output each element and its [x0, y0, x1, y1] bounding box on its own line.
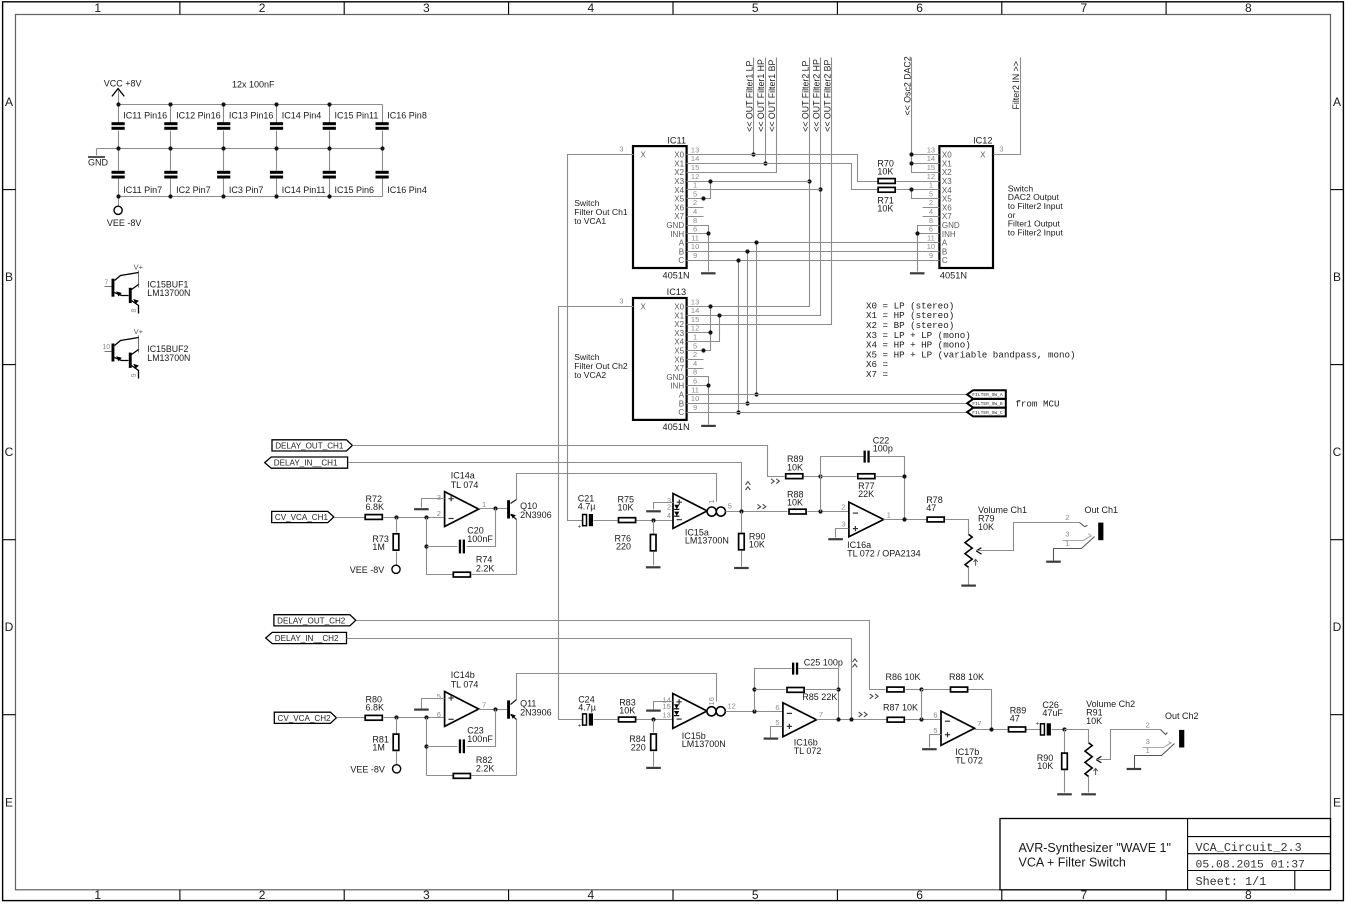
wire IC11 GND INH to ground: [704, 226, 709, 272]
svg-text:13: 13: [691, 145, 699, 154]
svg-text:IC16 Pin4: IC16 Pin4: [387, 185, 427, 195]
svg-text:10K: 10K: [877, 204, 893, 214]
svg-text:4: 4: [693, 359, 697, 368]
wire C26 to R91: [1065, 730, 1089, 743]
junction IC15b output: [752, 709, 756, 713]
svg-text:R87 10K: R87 10K: [883, 702, 918, 712]
svg-text:10K: 10K: [877, 167, 893, 177]
svg-text:12: 12: [728, 701, 736, 710]
svg-text:INH: INH: [670, 382, 684, 391]
OTA IC15b LM13700N: [662, 694, 735, 749]
svg-text:1: 1: [482, 500, 486, 509]
wire DELAY_IN_CH1 to IC15a output: [349, 463, 742, 510]
svg-text:9: 9: [929, 251, 933, 260]
svg-text:4051N: 4051N: [663, 422, 690, 432]
capacitor C25 100p: [755, 657, 843, 719]
op-amp IC17b TL072: [933, 711, 982, 766]
label 12x 100nF: [232, 80, 275, 90]
svg-text:6: 6: [775, 703, 779, 712]
svg-text:TL 074: TL 074: [451, 480, 479, 490]
capacitor C20 100nF: [427, 509, 496, 554]
junction bottom rail col4: [274, 194, 278, 198]
capacitor decoupling IC11 Pin7: [112, 149, 163, 197]
resistor R81 1M: [372, 718, 398, 765]
junction top rail col1: [116, 102, 120, 106]
svg-text:X0: X0: [942, 151, 952, 160]
wire IC17b output to R89: [975, 729, 1008, 731]
transistor Q11 2N3906: [507, 698, 552, 719]
svg-text:GND: GND: [942, 221, 960, 230]
junction C26 R90: [1062, 727, 1066, 731]
svg-text:VEE -8V: VEE -8V: [350, 565, 385, 575]
svg-text:+: +: [578, 723, 582, 730]
marker send arrows R88 row: [757, 504, 765, 509]
svg-text:10K: 10K: [1086, 716, 1102, 726]
svg-text:3: 3: [619, 296, 623, 305]
junction IC14b output / C23: [493, 707, 497, 711]
svg-text:IC14 Pin11: IC14 Pin11: [282, 185, 326, 195]
wire OUT Filter1 HP to IC11 X1: [765, 58, 767, 164]
marker send arrows R86 row: [870, 694, 878, 699]
svg-text:1: 1: [94, 1, 101, 15]
capacitor decoupling IC13 Pin16: [217, 105, 273, 149]
svg-text:X7: X7: [942, 212, 952, 221]
svg-text:VEE -8V: VEE -8V: [350, 765, 385, 775]
svg-text:6.8K: 6.8K: [366, 502, 385, 512]
svg-text:100p: 100p: [873, 444, 893, 454]
svg-text:10K: 10K: [619, 706, 635, 716]
wire IC11 X3 to X5 strap: [704, 182, 711, 199]
junction R77 C22 output: [902, 474, 906, 478]
wire OUT Filter2 BP to IC13 X2: [704, 58, 832, 325]
wire IC15b output to IC16b: [726, 711, 783, 713]
ground IC15b non-inverting input: [646, 702, 672, 711]
net tag CV_VCA_CH2: [274, 712, 336, 723]
capacitor decoupling IC15 Pin11: [323, 105, 379, 149]
resistor R88 10K: [787, 489, 849, 514]
svg-text:VEE -8V: VEE -8V: [107, 218, 142, 228]
svg-text:5: 5: [933, 726, 937, 735]
svg-text:4051N: 4051N: [940, 270, 967, 280]
svg-text:<< OUT Filter2 LP: << OUT Filter2 LP: [800, 60, 810, 131]
svg-text:to Filter2 Input: to Filter2 Input: [1008, 201, 1064, 211]
svg-text:C: C: [5, 445, 14, 459]
wire Osc2 DAC2 to IC12 X0 X1 X2: [912, 58, 923, 173]
wire R86 R87 node vertical: [921, 690, 923, 720]
svg-text:IC14 Pin4: IC14 Pin4: [282, 110, 322, 120]
svg-text:X3: X3: [674, 177, 684, 186]
svg-text:IC13: IC13: [667, 287, 686, 297]
junction R89 R77 C22: [818, 474, 822, 478]
capacitor C21 4.7u polarized: [578, 493, 618, 530]
junction IC15a output: [739, 509, 743, 513]
svg-text:E: E: [5, 795, 13, 809]
resistor R89 47 output: [1009, 706, 1041, 732]
op-amp IC14b TL074: [437, 670, 486, 726]
junction IC16b output feedback: [836, 717, 840, 721]
svg-text:15: 15: [927, 163, 935, 172]
wire IC11 X0 to R70: [704, 155, 878, 182]
svg-text:6.8K: 6.8K: [366, 703, 385, 713]
marker send arrows R89 row: [771, 479, 779, 484]
net tag DELAY_IN__CH1: [265, 457, 348, 468]
wire net C down to IC13: [738, 261, 740, 413]
svg-text:220: 220: [631, 743, 646, 753]
svg-text:8: 8: [1245, 1, 1252, 15]
svg-text:16: 16: [707, 697, 716, 705]
marker send arrows DELAY_IN_CH1 vertical: [746, 482, 751, 490]
junction mid rail col2: [168, 146, 172, 150]
svg-text:IC11 Pin16: IC11 Pin16: [123, 110, 167, 120]
svg-text:X7 =: X7 =: [866, 369, 888, 380]
marker send arrows R87 row: [859, 712, 867, 717]
junction R86 R88 feedback: [919, 687, 923, 691]
transistor Q10 2N3906: [507, 500, 552, 521]
svg-text:7: 7: [977, 719, 981, 728]
resistor R88 10K feedback: [922, 672, 992, 729]
wire OUT Filter1 BP to IC11 X2: [704, 58, 777, 173]
wire OUT Filter1 LP to IC11 X0: [753, 58, 755, 155]
wire net B IC13 to FILTER_SW_B: [704, 403, 968, 405]
svg-text:2: 2: [437, 509, 441, 518]
svg-text:X3: X3: [942, 177, 952, 186]
wire IC16a output to R78: [884, 519, 927, 521]
svg-text:DELAY_OUT_CH1: DELAY_OUT_CH1: [275, 442, 344, 451]
svg-text:2N3906: 2N3906: [520, 708, 552, 718]
svg-text:3: 3: [999, 144, 1003, 153]
junction bottom rail col1: [116, 194, 120, 198]
junction OUT Filter2 HP / IC11 X4: [818, 187, 822, 191]
net tag FILTER_SW_A: [967, 390, 1006, 399]
svg-text:10K: 10K: [618, 503, 634, 513]
resistor R78 47: [926, 495, 968, 534]
capacitor decoupling IC16 Pin4: [376, 149, 427, 197]
svg-text:4051N: 4051N: [663, 270, 690, 280]
connector jack Out Ch2: [1127, 711, 1199, 769]
resistor R70 10K: [877, 158, 922, 183]
svg-text:IC12: IC12: [973, 135, 992, 145]
resistor R76 220: [614, 521, 660, 568]
net tag FILTER_SW_C: [967, 408, 1006, 417]
wire IC11 X1 to R71: [704, 164, 878, 190]
svg-text:CV_VCA_CH1: CV_VCA_CH1: [275, 513, 329, 522]
junction R83 R84: [651, 717, 655, 721]
svg-text:DELAY_IN__CH1: DELAY_IN__CH1: [274, 459, 338, 468]
junction OUT Filter1 HP / IC11 X1: [763, 161, 767, 165]
svg-text:7: 7: [1081, 1, 1088, 15]
svg-text:8: 8: [693, 368, 697, 377]
net flag OUT Filter1 LP: [745, 60, 755, 131]
wire GND middle rail: [97, 148, 383, 150]
wire Q11 collector to IC15b bias: [517, 674, 717, 702]
svg-text:X6: X6: [674, 355, 684, 364]
ground IC15a non-inverting input: [646, 503, 673, 512]
wire IC12 X4 to X5 strap: [912, 190, 923, 199]
svg-text:12: 12: [691, 324, 699, 333]
svg-text:DELAY_OUT_CH2: DELAY_OUT_CH2: [277, 616, 346, 625]
junction Osc2 DAC2 / IC12 X0: [909, 152, 913, 156]
capacitor C24 4.7u polarized: [578, 694, 618, 729]
svg-text:10: 10: [927, 242, 935, 251]
svg-text:Out Ch1: Out Ch1: [1085, 505, 1119, 515]
analog switch IC12 4051N: [923, 135, 1011, 280]
svg-text:2: 2: [693, 350, 697, 359]
transistor buffer IC15BUF2 LM13700N: [102, 327, 190, 378]
op-amp IC16a TL072/OPA2134: [841, 502, 920, 558]
net flag OUT Filter1 BP: [767, 59, 777, 131]
resistor R83 10K: [619, 698, 673, 722]
svg-text:E: E: [1333, 795, 1341, 809]
junction IC11 INH: [706, 231, 710, 235]
capacitor decoupling IC12 Pin16: [164, 105, 220, 149]
op-amp IC14a TL074: [437, 470, 486, 526]
svg-text:12: 12: [927, 172, 935, 181]
svg-text:2: 2: [259, 1, 266, 15]
svg-text:13: 13: [927, 145, 935, 154]
svg-text:X1: X1: [674, 311, 684, 320]
junction feedback C20: [424, 544, 428, 548]
svg-text:X3: X3: [674, 329, 684, 338]
svg-text:IC16 Pin8: IC16 Pin8: [387, 110, 427, 120]
svg-text:5: 5: [752, 888, 759, 902]
wire net C IC11 to IC12: [704, 260, 923, 262]
junction IC13 INH: [706, 383, 710, 387]
wire IC12 GND INH to ground: [918, 226, 923, 272]
svg-text:+: +: [1036, 721, 1040, 728]
svg-text:LM13700N: LM13700N: [147, 353, 190, 363]
svg-text:2: 2: [259, 888, 266, 902]
svg-text:TL 074: TL 074: [451, 680, 479, 690]
capacitor C23 100nF: [427, 710, 496, 754]
wire Filter2 IN to IC12 X: [1011, 58, 1021, 155]
ground IC16b non-inverting input: [764, 727, 783, 739]
svg-text:<< OUT Filter2 BP: << OUT Filter2 BP: [822, 59, 832, 131]
svg-text:10K: 10K: [1037, 761, 1053, 771]
svg-text:1: 1: [693, 333, 697, 342]
svg-text:X7: X7: [674, 212, 684, 221]
svg-text:12: 12: [691, 172, 699, 181]
svg-text:1: 1: [707, 500, 716, 504]
svg-text:10: 10: [691, 242, 699, 251]
svg-text:10K: 10K: [787, 498, 803, 508]
junction mid rail col5: [327, 146, 331, 150]
svg-text:B: B: [679, 399, 684, 408]
svg-text:IC14b: IC14b: [451, 670, 475, 680]
wire IC11 X to C21: [568, 155, 617, 521]
junction IC13 X0: [708, 304, 712, 308]
power symbol VCC +8V: [104, 79, 142, 105]
ground IC14a non-inverting input: [414, 499, 444, 510]
svg-text:X6: X6: [942, 203, 952, 212]
junction IC17b output feedback: [989, 727, 993, 731]
svg-text:GND: GND: [666, 221, 684, 230]
junction net C at IC11: [736, 258, 740, 262]
svg-text:X1: X1: [942, 159, 952, 168]
svg-text:1: 1: [929, 181, 933, 190]
svg-text:4: 4: [667, 511, 671, 520]
wire IC13 X0 strap to X3 X5: [704, 307, 810, 351]
junction IC14a output / C20: [493, 506, 497, 510]
wire Q10 collector to IC15a bias: [517, 474, 717, 502]
svg-text:X4: X4: [942, 186, 952, 195]
svg-text:FILTER_SW_C: FILTER_SW_C: [972, 410, 1003, 416]
wire IC14a feedback node down: [426, 518, 428, 575]
svg-text:D: D: [1333, 620, 1342, 634]
svg-text:1M: 1M: [372, 743, 385, 753]
svg-text:IC2 Pin7: IC2 Pin7: [176, 185, 211, 195]
transistor buffer IC15BUF1 LM13700N: [104, 262, 190, 313]
svg-text:10K: 10K: [787, 462, 803, 472]
svg-text:INH: INH: [942, 230, 956, 239]
junction R72 R73: [394, 515, 398, 519]
junction C25 R85 right: [836, 687, 840, 691]
svg-text:9: 9: [693, 251, 697, 260]
wire VCC top rail: [119, 104, 383, 106]
junction IC13 X5: [701, 348, 705, 352]
wire CV_VCA_CH1 to IC14a: [335, 517, 445, 519]
junction IC13 X1: [717, 313, 721, 317]
svg-text:LM13700N: LM13700N: [682, 739, 726, 749]
potentiometer R91 10K Volume Ch2: [1081, 699, 1135, 794]
junction IC16b output delay: [849, 717, 853, 721]
svg-text:3: 3: [423, 888, 430, 902]
svg-text:3: 3: [619, 144, 623, 153]
junction IC12 INH: [915, 231, 919, 235]
net tag CV_VCA_CH1: [272, 511, 334, 522]
svg-text:X5: X5: [674, 347, 684, 356]
svg-text:A: A: [679, 239, 685, 248]
OTA IC15a LM13700N: [667, 494, 732, 546]
svg-text:C: C: [678, 256, 684, 265]
svg-text:2: 2: [693, 198, 697, 207]
junction mid rail col3: [221, 146, 225, 150]
svg-text:X4: X4: [674, 338, 684, 347]
svg-text:47uF: 47uF: [1042, 708, 1063, 718]
svg-text:1M: 1M: [372, 542, 385, 552]
svg-text:6: 6: [437, 710, 441, 719]
svg-text:2: 2: [1146, 720, 1150, 729]
marker send arrows DELAY_IN_CH2 vertical: [853, 659, 858, 667]
svg-text:V+: V+: [134, 327, 144, 336]
resistor R82 2.2K: [427, 755, 517, 778]
svg-text:2: 2: [929, 198, 933, 207]
ground IC14b non-inverting input: [414, 699, 444, 710]
capacitor decoupling IC3 Pin7: [217, 149, 263, 197]
svg-text:VCA_Circuit_2.3: VCA_Circuit_2.3: [1196, 841, 1302, 855]
svg-text:8: 8: [131, 308, 138, 312]
svg-text:8: 8: [693, 216, 697, 225]
capacitor decoupling IC2 Pin7: [164, 149, 210, 197]
net flag OUT Filter2 BP: [822, 59, 832, 131]
annotation Switch DAC2 Output to Filter2 Input or Filter1 Output to Filter2 Input: [1008, 183, 1064, 237]
connector jack Out Ch1: [1046, 505, 1118, 562]
junction R71 / IC12 X4: [909, 187, 913, 191]
svg-text:<< OUT Filter2 HP: << OUT Filter2 HP: [811, 59, 821, 132]
svg-text:8: 8: [929, 216, 933, 225]
svg-text:2: 2: [1065, 513, 1069, 522]
svg-text:DELAY_IN__CH2: DELAY_IN__CH2: [275, 634, 339, 643]
svg-text:9: 9: [693, 403, 697, 412]
legend filter switch positions: [866, 300, 1076, 380]
svg-text:IC11: IC11: [667, 135, 686, 145]
svg-text:X2: X2: [674, 320, 684, 329]
junction R75 R76: [651, 518, 655, 522]
svg-text:TL 072: TL 072: [794, 746, 822, 756]
junction top rail col4: [274, 102, 278, 106]
svg-text:IC14a: IC14a: [451, 470, 475, 480]
resistor R86 10K: [886, 672, 922, 692]
svg-text:6: 6: [916, 1, 923, 15]
junction mid rail col6: [380, 146, 384, 150]
svg-text:7: 7: [482, 700, 486, 709]
svg-text:LM13700N: LM13700N: [685, 535, 729, 545]
svg-text:47: 47: [926, 503, 936, 513]
wire IC13 X to C24: [559, 307, 617, 720]
svg-text:X1: X1: [674, 159, 684, 168]
svg-text:IC15 Pin6: IC15 Pin6: [335, 185, 375, 195]
wire IC13 GND INH to ground: [704, 377, 709, 425]
svg-text:B: B: [5, 270, 13, 284]
svg-text:2: 2: [841, 502, 845, 511]
net flag OUT Filter2 HP: [811, 59, 821, 132]
svg-text:7: 7: [104, 279, 108, 286]
svg-text:X4: X4: [674, 186, 684, 195]
svg-text:12x 100nF: 12x 100nF: [232, 80, 275, 90]
wire IC14b output to Q11 base: [479, 709, 508, 711]
power symbol VEE -8V: [107, 197, 142, 228]
svg-text:10: 10: [691, 394, 699, 403]
wire DELAY_IN_CH2 to IC16b output: [347, 639, 852, 720]
svg-text:100nF: 100nF: [467, 534, 493, 544]
wire IC16b output to R87: [817, 719, 887, 721]
svg-text:VCA + Filter Switch: VCA + Filter Switch: [1019, 855, 1126, 869]
capacitor decoupling IC14 Pin4: [270, 105, 321, 149]
junction bottom rail col2: [168, 194, 172, 198]
svg-text:to VCA1: to VCA1: [574, 216, 606, 226]
junction top rail col3: [221, 102, 225, 106]
svg-text:IC12 Pin16: IC12 Pin16: [176, 110, 221, 120]
ground IC17b non-inverting input: [922, 735, 941, 750]
wire IC14b feedback node down: [426, 718, 428, 776]
svg-text:X2: X2: [674, 168, 684, 177]
resistor R72 6.8K: [365, 494, 384, 519]
svg-text:1: 1: [94, 888, 101, 902]
junction IC11 X5 strap: [701, 196, 705, 200]
wire IC11 X4 to OUT Filter2 HP: [704, 189, 821, 191]
svg-text:INH: INH: [670, 230, 684, 239]
svg-text:1: 1: [1146, 746, 1150, 755]
svg-text:4: 4: [587, 1, 594, 15]
svg-text:X0: X0: [674, 151, 684, 160]
svg-text:2.2K: 2.2K: [476, 764, 495, 774]
svg-text:05.08.2015 01:37: 05.08.2015 01:37: [1196, 860, 1305, 872]
op-amp IC16b TL072: [775, 703, 823, 756]
svg-text:11: 11: [691, 233, 699, 242]
svg-text:<< OUT Filter1 BP: << OUT Filter1 BP: [767, 59, 777, 131]
svg-text:VCC +8V: VCC +8V: [104, 79, 142, 89]
svg-text:Filter2 IN >>: Filter2 IN >>: [1011, 61, 1021, 109]
svg-text:R85 22K: R85 22K: [802, 692, 837, 702]
junction bottom rail col3: [221, 194, 225, 198]
svg-text:C: C: [1333, 445, 1342, 459]
svg-text:2N3906: 2N3906: [520, 510, 552, 520]
junction net B at IC11: [745, 249, 749, 253]
ground IC11 GND INH: [701, 272, 716, 274]
title block: [1000, 819, 1331, 890]
svg-text:+: +: [578, 523, 582, 530]
resistor R90 10K at IC15a output: [734, 512, 765, 569]
junction OUT Filter2 LP / IC11 X3: [807, 179, 811, 183]
